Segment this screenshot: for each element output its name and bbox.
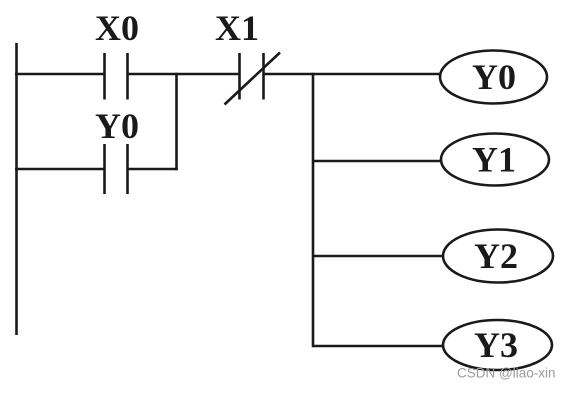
svg-text:X1: X1 [215,8,259,48]
contact X0 (NO) [105,53,128,100]
contact Y0 (NO) [105,144,128,194]
coil Y3 [443,320,552,370]
coil Y0 [440,51,547,104]
wire vertical branch junction [175,73,178,171]
wire rung1 middle (X0 to X1) [128,73,241,76]
coil Y1 [441,134,549,186]
wire rung2 right (contact Y0 to junction) [128,168,178,171]
wire rung2 left (rail to contact Y0) [15,168,105,171]
wire rung1 right (X1 to coil Y0) [264,73,442,76]
wire output bus [312,73,315,348]
svg-text:Y0: Y0 [472,57,516,97]
wire branch to coil Y2 [313,255,444,258]
contact X1 (NC) [225,53,281,105]
svg-text:Y3: Y3 [474,325,518,365]
svg-text:X0: X0 [95,8,139,48]
svg-text:Y1: Y1 [472,140,516,180]
svg-text:Y0: Y0 [95,106,139,146]
wire branch to coil Y3 [313,345,444,348]
coil Y2 [443,230,553,283]
svg-text:Y2: Y2 [474,236,518,276]
wire branch to coil Y1 [313,160,442,163]
svg-text:CSDN @liao-xin: CSDN @liao-xin [457,366,555,381]
wire rung1 left (rail to X0) [15,73,105,76]
left power rail [15,43,18,335]
